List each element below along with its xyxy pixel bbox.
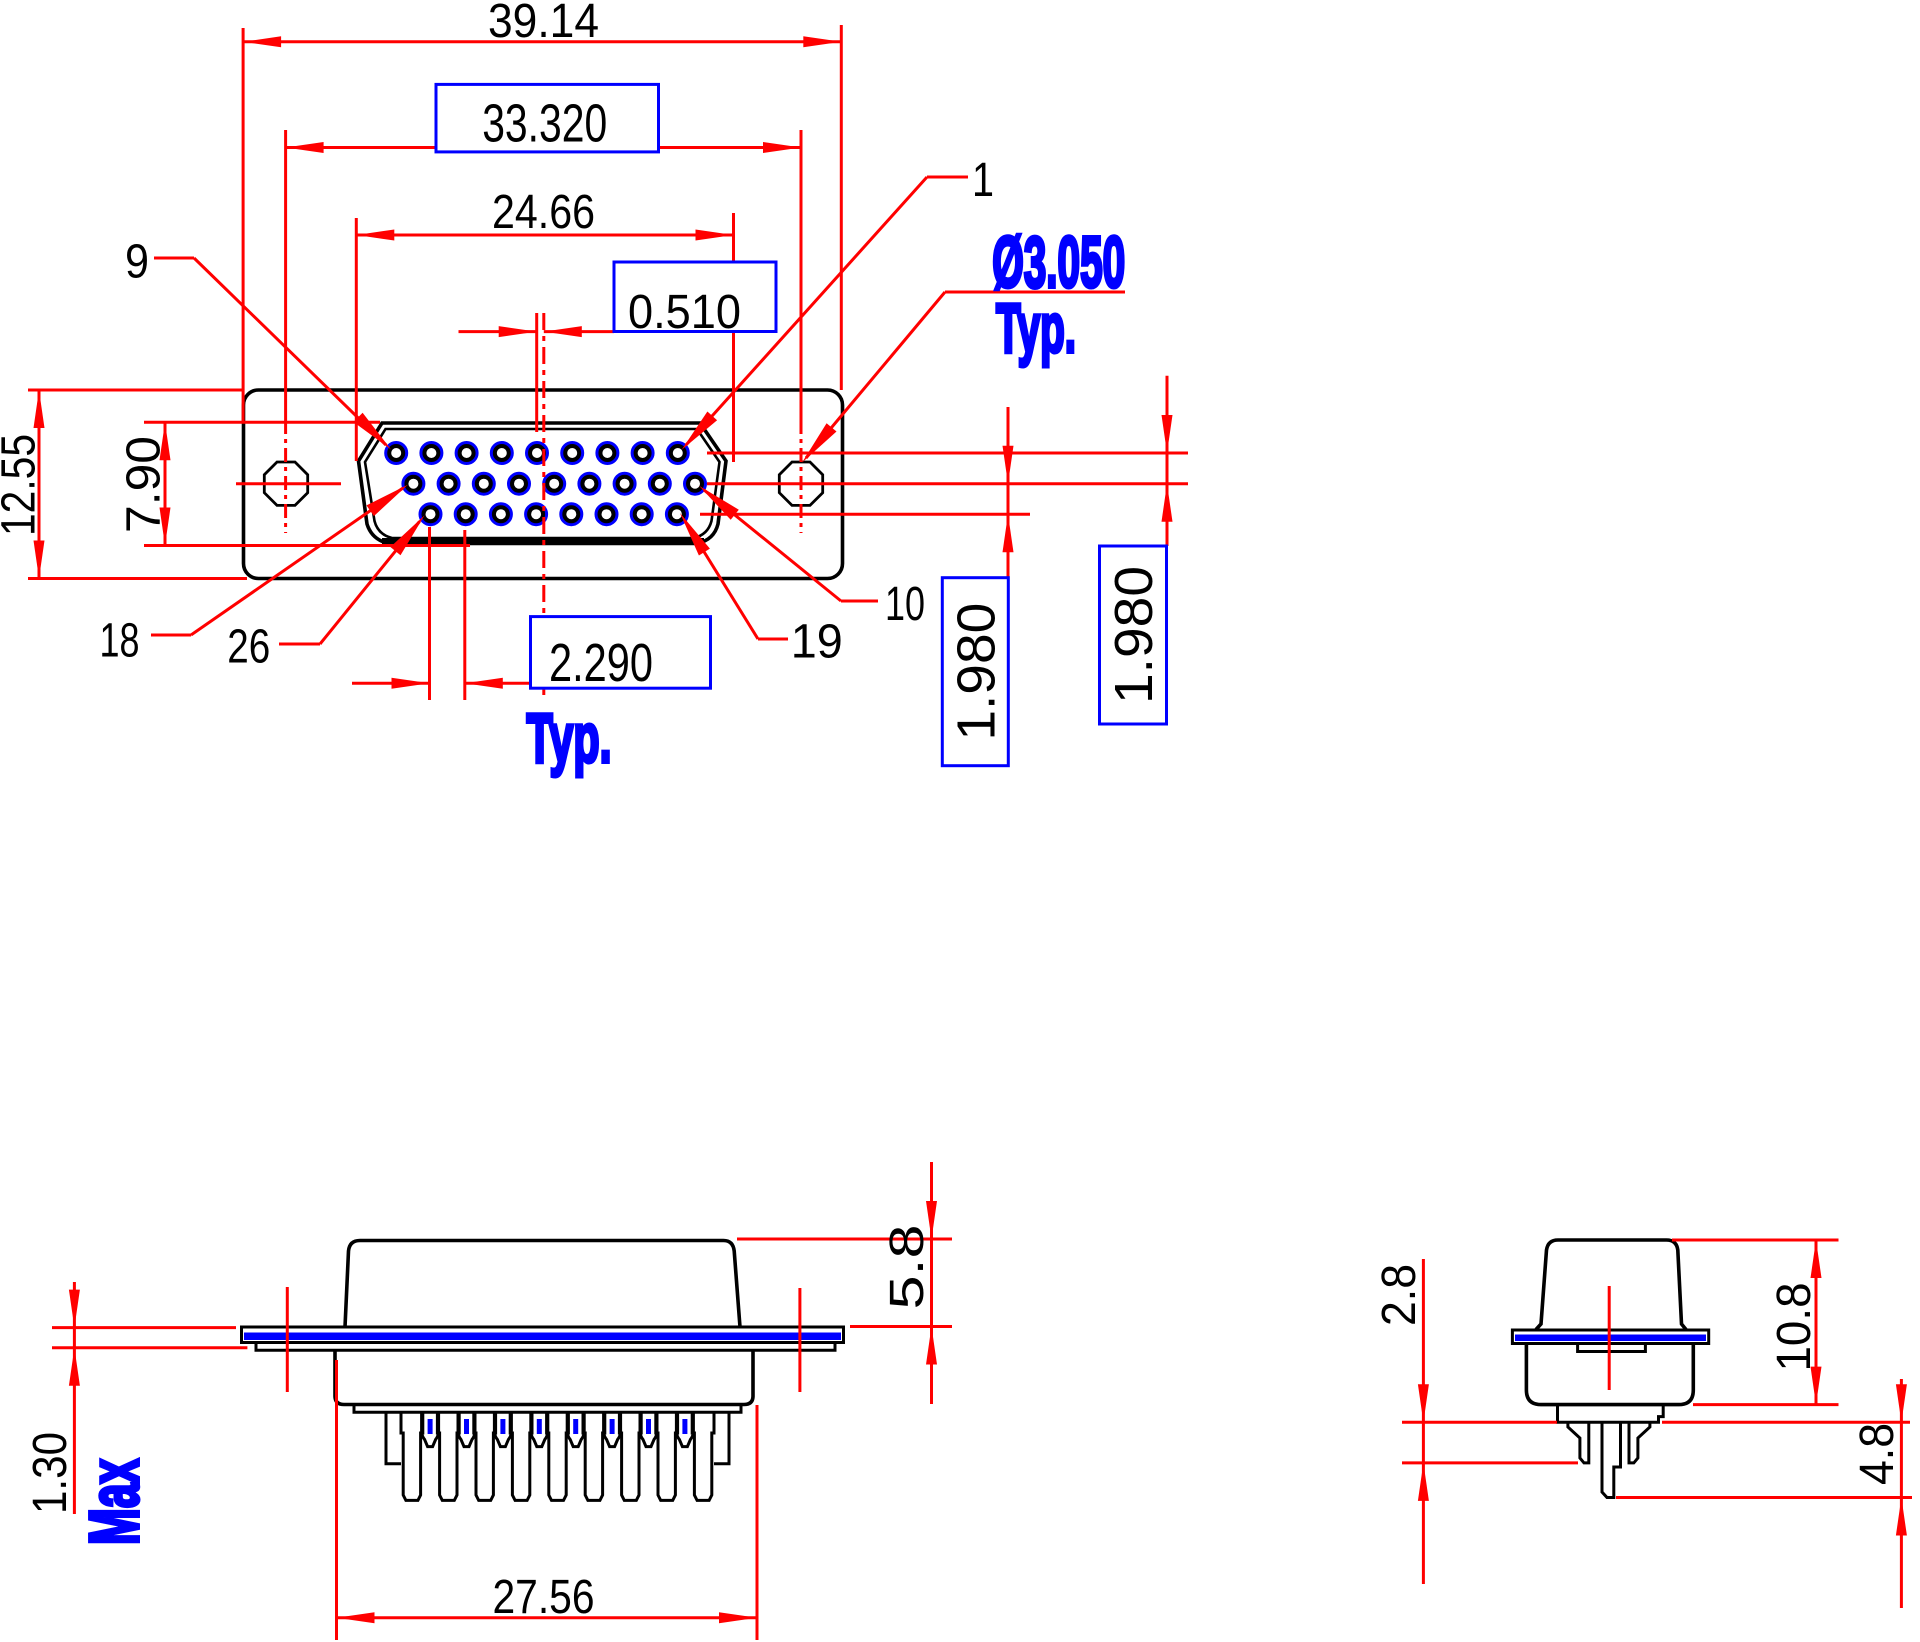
- side view flange plate: [242, 1327, 844, 1343]
- extension line 7.90 bottom: [144, 544, 470, 547]
- shroud bottom edge thick: [382, 538, 704, 544]
- pin 7: [457, 443, 476, 462]
- dimension 7.90: [118, 422, 171, 545]
- side pin bullet 3 (middle row pin tip): [494, 1412, 511, 1446]
- leader pin 9: [125, 236, 391, 450]
- pin 20: [632, 505, 651, 524]
- svg-text:Max: Max: [75, 1459, 153, 1545]
- svg-text:1.980: 1.980: [946, 603, 1006, 741]
- svg-text:1.30: 1.30: [24, 1432, 77, 1514]
- end view flange plate: [1512, 1330, 1708, 1344]
- pin 13: [580, 474, 599, 493]
- dimension 2.290: [352, 617, 711, 693]
- dimension 5.8: [737, 1162, 952, 1404]
- pin 6: [492, 443, 511, 462]
- svg-text:Typ.: Typ.: [527, 699, 612, 777]
- extension line 2.290 left (pin 26): [428, 527, 431, 700]
- svg-text:2.290: 2.290: [549, 633, 653, 693]
- svg-text:10.8: 10.8: [1768, 1283, 1821, 1372]
- pin 18: [404, 474, 423, 493]
- end view flange blue gasket: [1515, 1334, 1706, 1341]
- leader pin 10: [699, 486, 925, 631]
- side view rear bracket bar: [256, 1343, 835, 1351]
- blue pin mark 3: [500, 1419, 505, 1434]
- side pin column 6 (front row pin): [583, 1412, 605, 1500]
- side pin column 8 (front row pin): [656, 1412, 678, 1500]
- pin 3: [598, 443, 617, 462]
- extension line 12.55 bottom: [28, 577, 247, 580]
- centerline vertical (dash-dot): [542, 313, 545, 695]
- mounting hole left horizontal centerline: [236, 482, 341, 485]
- dimension 2.8: [1373, 1259, 1910, 1584]
- blue pin mark 8: [682, 1419, 687, 1434]
- pin 14: [545, 474, 564, 493]
- svg-text:39.14: 39.14: [488, 0, 599, 48]
- extension line pin column 0.510: [535, 313, 538, 432]
- mounting hole left: [264, 462, 307, 505]
- side pin column 4 (front row pin): [510, 1412, 532, 1500]
- side view right hole centerline: [798, 1288, 801, 1392]
- end view insulator body: [1526, 1344, 1693, 1405]
- connector flange outline (front view): [244, 390, 843, 579]
- side view pin shelf: [354, 1405, 741, 1413]
- side pin bullet 1 (middle row pin tip): [422, 1412, 439, 1446]
- extension line 33.320 right / mounting hole centerline right: [800, 130, 803, 420]
- side pin end step right: [714, 1412, 729, 1464]
- end view pin block: [1558, 1405, 1664, 1423]
- dimension 1.980 rows 2-3: [942, 407, 1013, 766]
- row 1 extension line right: [707, 452, 1188, 455]
- pin 4: [563, 443, 582, 462]
- svg-text:1.980: 1.980: [1104, 566, 1164, 704]
- pin 19: [667, 505, 686, 524]
- svg-text:5.8: 5.8: [881, 1225, 934, 1310]
- dimension 24.66: [356, 186, 733, 241]
- pin 1: [668, 443, 687, 462]
- side view cap body: [345, 1241, 740, 1328]
- side pin bullet 6 (middle row pin tip): [604, 1412, 621, 1446]
- extension line 12.55 top: [28, 389, 244, 392]
- leader mounting hole diameter: [802, 292, 1125, 463]
- pin 25: [456, 505, 475, 524]
- leader pin 18: [100, 485, 409, 668]
- end view cap body: [1536, 1240, 1686, 1330]
- end view right pin: [1629, 1422, 1650, 1463]
- side view insulator body: [335, 1350, 753, 1404]
- side pin end step left: [386, 1412, 401, 1464]
- extension line 2.290 right (pin 25): [463, 530, 466, 700]
- end view bracket tab: [1578, 1344, 1646, 1352]
- svg-text:26: 26: [227, 621, 270, 674]
- svg-text:33.320: 33.320: [482, 94, 607, 154]
- dimension 4.8: [1616, 1379, 1912, 1608]
- side pin bullet 2 (middle row pin tip): [458, 1412, 475, 1446]
- side pin bullet 8 (middle row pin tip): [676, 1412, 693, 1446]
- end view centerline: [1608, 1286, 1611, 1390]
- dimension 33.320: [286, 84, 801, 153]
- blue pin mark 2: [464, 1419, 469, 1434]
- pin 23: [526, 505, 545, 524]
- side pin column 1 (front row pin): [401, 1412, 423, 1500]
- end view center pin: [1602, 1422, 1621, 1497]
- side view left hole centerline: [286, 1287, 289, 1392]
- svg-text:27.56: 27.56: [493, 1571, 595, 1624]
- dimension 10.8: [1672, 1240, 1839, 1405]
- pin 2: [633, 443, 652, 462]
- leader pin 1: [682, 154, 995, 450]
- row 2 extension line right (through right hole): [707, 482, 1188, 485]
- D-shroud inner outline: [365, 429, 720, 538]
- pin 21: [597, 505, 616, 524]
- pin 5: [527, 443, 546, 462]
- leader pin 26: [227, 515, 424, 673]
- svg-text:24.66: 24.66: [492, 186, 595, 239]
- svg-text:Typ.: Typ.: [996, 289, 1076, 367]
- svg-text:7.90: 7.90: [118, 436, 171, 533]
- extension line 7.90 top: [144, 421, 380, 424]
- dimension 1.980 rows 1-2: [1100, 376, 1173, 724]
- pin 15: [509, 474, 528, 493]
- side pin column 2 (front row pin): [437, 1412, 459, 1500]
- extension line 24.66 left: [355, 218, 358, 461]
- side pin column 7 (front row pin): [619, 1412, 641, 1500]
- side pin column 3 (front row pin): [474, 1412, 496, 1500]
- mounting hole right: [779, 462, 822, 505]
- blue pin mark 6: [610, 1419, 615, 1434]
- extension line 39.14 right: [840, 25, 843, 390]
- svg-text:19: 19: [791, 615, 843, 668]
- row 3 extension line right: [700, 513, 1030, 516]
- D-shroud outer outline: [359, 423, 727, 544]
- blue pin mark 5: [573, 1419, 578, 1434]
- pin 11: [650, 474, 669, 493]
- side view flange blue gasket: [244, 1333, 841, 1341]
- pin 16: [474, 474, 493, 493]
- side pin bullet 5 (middle row pin tip): [567, 1412, 584, 1446]
- pin 12: [615, 474, 634, 493]
- side pin bullet 4 (middle row pin tip): [531, 1412, 548, 1446]
- dimension 0.510: [459, 262, 777, 339]
- leader pin 19: [680, 513, 843, 668]
- extension line 33.320 left / mounting hole centerline left: [284, 130, 287, 420]
- end view left pin: [1568, 1422, 1589, 1463]
- dimension 1.30: [24, 1282, 247, 1514]
- pin 24: [491, 505, 510, 524]
- svg-text:1: 1: [972, 154, 994, 207]
- svg-text:9: 9: [125, 236, 149, 289]
- svg-text:18: 18: [100, 615, 140, 668]
- svg-text:4.8: 4.8: [1851, 1423, 1904, 1485]
- pin 17: [439, 474, 458, 493]
- pin 22: [562, 505, 581, 524]
- svg-text:10: 10: [885, 578, 925, 631]
- pin 8: [422, 443, 441, 462]
- blue pin mark 4: [537, 1419, 542, 1434]
- svg-text:0.510: 0.510: [628, 286, 741, 339]
- extension line 24.66 right: [732, 213, 735, 462]
- dimension 39.14: [243, 0, 841, 48]
- side pin column 9 (front row pin): [692, 1412, 714, 1500]
- side pin bullet 7 (middle row pin tip): [640, 1412, 657, 1446]
- svg-text:12.55: 12.55: [0, 434, 46, 536]
- blue pin mark 1: [428, 1419, 433, 1434]
- pin 26: [421, 505, 440, 524]
- pin 10: [685, 474, 704, 493]
- side pin column 5 (front row pin): [547, 1412, 569, 1500]
- dimension 12.55: [0, 390, 46, 579]
- dimension 27.56: [337, 1360, 758, 1640]
- pin 9: [387, 443, 406, 462]
- svg-text:2.8: 2.8: [1373, 1264, 1426, 1326]
- blue pin mark 7: [646, 1419, 651, 1434]
- extension line 39.14 left: [242, 28, 245, 422]
